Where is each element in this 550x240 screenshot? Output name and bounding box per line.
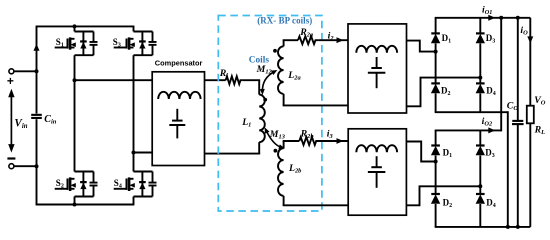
leg A wire (S1 to S2) <box>74 55 76 171</box>
label iO <box>520 25 528 37</box>
wire compensator to Ri <box>205 79 226 81</box>
label Compensator <box>155 59 203 68</box>
input terminal + (top) <box>7 69 14 88</box>
node L1 polarity dot <box>263 98 267 102</box>
label M12 <box>256 64 273 76</box>
svg-text:Compensator: Compensator <box>155 59 203 68</box>
upper rectifier left leg <box>435 18 437 112</box>
current arrow on left rail <box>34 44 40 51</box>
svg-text:+: + <box>7 74 14 88</box>
compensator inductor <box>158 92 200 99</box>
wire - terminal to rail <box>14 165 37 167</box>
wire + terminal to rail <box>14 70 37 72</box>
current arrow iO <box>527 36 533 43</box>
label D1 upper <box>442 33 452 45</box>
label S4 <box>114 178 122 190</box>
node upper D3-D4 junction <box>478 76 482 80</box>
upper rectifier bottom rail <box>435 111 508 113</box>
label Cin <box>44 114 57 126</box>
leg B wire (S3 drain / upper) <box>133 26 135 31</box>
wire compensator bottom to L1 bottom <box>205 153 261 155</box>
capacitor CO <box>512 18 524 227</box>
mutual inductance arrow M13 <box>265 127 285 149</box>
upper rectifier right leg <box>479 18 481 112</box>
node - rail junction <box>35 164 39 168</box>
diode D1 (upper) <box>431 33 440 43</box>
mutual inductance arrow M12 <box>260 70 278 95</box>
resistor R2a <box>298 36 318 44</box>
wire lower rectifier plus up to top rail <box>500 18 502 132</box>
leg B wire (S4 to bottom rail) <box>133 197 135 205</box>
label R2a <box>299 27 314 39</box>
diode D2 (lower) <box>431 194 440 204</box>
dashed box (RX-BP coils) <box>218 16 322 212</box>
left DC rail <box>36 26 38 204</box>
label CO <box>507 101 519 113</box>
wire L2b top to R2b <box>283 140 300 142</box>
upper compensation inductor <box>356 46 397 53</box>
transistor S2 (MOSFET with body diode and capacitor) <box>55 172 98 197</box>
node top rail leg A <box>73 24 77 28</box>
lower rectifier top rail with current iO2 <box>435 127 502 133</box>
label D2 lower <box>443 198 453 210</box>
label L2b <box>288 163 301 175</box>
node top rail at x501 <box>499 16 503 20</box>
diode D3 (upper) <box>476 33 485 43</box>
wire L2a bottom to box <box>283 104 348 106</box>
inductor L1 (primary coil) <box>259 80 265 153</box>
label i3 <box>327 128 334 140</box>
label S3 <box>113 37 121 49</box>
label D3 upper <box>486 33 496 45</box>
lower compensation box <box>348 129 406 215</box>
compensator box <box>152 72 204 166</box>
wire upper box to D1-D2 node <box>407 41 436 52</box>
label R2b <box>300 128 314 140</box>
capacitor Cin <box>31 115 42 118</box>
diode D3 (lower) <box>476 146 485 156</box>
Vin arrow <box>8 89 14 153</box>
node leg A midpoint <box>73 78 77 82</box>
node L2b polarity dot <box>274 149 278 153</box>
compensator capacitor <box>169 109 185 139</box>
node leg B midpoint <box>132 151 136 155</box>
lower compensation inductor <box>356 145 397 152</box>
label i2 <box>328 30 335 42</box>
node lower D1-D2 junction <box>434 160 438 164</box>
inductor L2a (secondary coil a) <box>278 40 284 105</box>
upper compensation capacitor <box>368 57 386 88</box>
top output rail with current iO1 <box>435 15 531 21</box>
wire L2b bottom to box <box>283 204 349 206</box>
label M13 <box>269 129 286 141</box>
wire R2a to box (current i2) <box>318 37 348 43</box>
label D4 lower <box>486 198 496 210</box>
label Coils <box>249 55 270 65</box>
label D2 upper <box>441 86 451 98</box>
transistor S3 (MOSFET with body diode and capacitor) <box>114 32 157 56</box>
wire lower box to D1-D2 node <box>406 142 435 162</box>
svg-text:(RX- BP coils): (RX- BP coils) <box>257 16 312 26</box>
lower compensation capacitor <box>368 156 386 188</box>
leg A wire (S1 drain / upper) <box>74 26 76 31</box>
node bottom rail leg A <box>73 203 77 207</box>
resistor R2b <box>299 137 319 145</box>
leg B wire (S3 to S4) <box>133 55 135 171</box>
label (RX- BP coils) <box>257 16 312 26</box>
wire R2b to box (current i3) <box>319 138 348 144</box>
resistor Ri <box>226 76 243 84</box>
inverter bottom rail <box>36 204 135 206</box>
node lower D3-D4 junction <box>478 184 482 188</box>
node bottom rail at x508 <box>506 225 510 229</box>
label S1 <box>56 37 64 49</box>
wire L2a top to R2a <box>283 39 298 41</box>
wire Ri to L1 <box>243 79 260 81</box>
inductor L2b (secondary coil b) <box>278 141 284 205</box>
label iO2 <box>482 116 493 128</box>
inverter top rail <box>36 25 135 27</box>
diode D2 (upper) <box>431 83 440 93</box>
node + rail junction <box>35 69 39 73</box>
wire leg B midpoint to compensator <box>134 152 153 154</box>
label iO1 <box>482 4 492 16</box>
label L1 <box>241 117 251 129</box>
node upper D1-D2 junction <box>434 50 438 54</box>
resistor RL (load) <box>527 18 534 227</box>
upper compensation box <box>348 24 407 113</box>
node CO top <box>516 16 520 20</box>
wire upper box to D3-D4 node (crosses left leg) <box>407 78 481 107</box>
transistor S4 (MOSFET with body diode and capacitor) <box>114 172 157 197</box>
wire leg A midpoint to compensator (crosses leg B) <box>75 79 153 81</box>
label D1 lower <box>443 147 453 159</box>
label D4 upper <box>486 86 496 98</box>
wire upper rectifier minus down to bottom rail <box>507 111 509 227</box>
label L2a <box>287 70 301 82</box>
diode D1 (lower) <box>431 146 440 156</box>
diode D4 (upper) <box>476 83 485 93</box>
label RL <box>534 125 546 137</box>
label S2 <box>56 178 64 190</box>
input terminal - (bottom) <box>7 159 15 169</box>
lower rectifier left leg <box>435 130 437 227</box>
wire lower box to D3-D4 node (crosses left leg) <box>406 186 480 205</box>
label Ri <box>219 68 229 80</box>
bottom output rail <box>435 226 531 228</box>
transistor S1 (MOSFET with body diode and capacitor) <box>55 32 98 56</box>
node L2a polarity dot <box>273 49 277 53</box>
node CO bottom <box>516 225 520 229</box>
leg A wire (S2 to bottom rail) <box>74 197 76 205</box>
lower rectifier right leg <box>479 130 481 227</box>
label Vin <box>14 118 27 131</box>
label VO <box>534 95 546 107</box>
diode D4 (lower) <box>476 194 485 204</box>
label D3 lower <box>485 147 495 159</box>
